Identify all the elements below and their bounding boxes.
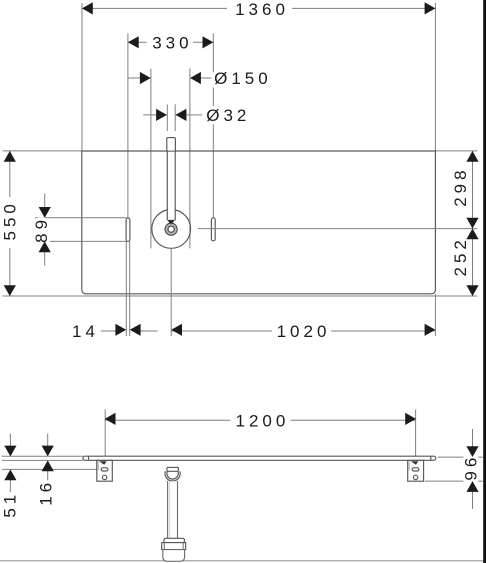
wire 1360 left extension <box>81 3 83 151</box>
arrow 96 top <box>466 446 478 457</box>
svg-text:252: 252 <box>451 236 470 276</box>
siphon pipe <box>168 481 178 538</box>
right bracket <box>408 460 424 481</box>
arrow 89 top <box>39 207 51 218</box>
wire circle centre extension below <box>170 248 172 336</box>
siphon flange <box>164 538 185 542</box>
arrow D32 left <box>156 109 167 121</box>
wire D150 extension left <box>150 69 152 249</box>
siphon collar <box>162 543 186 550</box>
arrow D150 right <box>190 72 201 84</box>
svg-text:Ø32: Ø32 <box>206 106 250 125</box>
svg-text:1200: 1200 <box>235 411 289 430</box>
arrow D150 left <box>140 72 151 84</box>
arrow 298 bottom <box>466 218 478 229</box>
wire 89 extension bottom <box>35 240 126 242</box>
arrow 330 right <box>203 36 214 48</box>
slab (front view) <box>83 456 436 460</box>
dimension D150 leader left <box>128 77 151 79</box>
dimension 330 line <box>128 41 213 43</box>
arrow 298 top <box>466 151 478 162</box>
arrow 550 top <box>4 151 16 162</box>
svg-text:14: 14 <box>72 322 99 341</box>
wire top extension line 550/298 <box>3 150 478 152</box>
arrow 550 bottom <box>4 285 16 296</box>
wire D32 extension left <box>166 104 168 131</box>
svg-text:89: 89 <box>32 216 51 243</box>
dimension 16 tails <box>47 434 49 482</box>
dimension 1020 line <box>171 330 435 332</box>
wire front right extension bracket bottom <box>425 480 483 482</box>
arrow 330 left <box>128 36 139 48</box>
tap channel line right <box>174 151 176 220</box>
wire 330 right extension <box>212 34 214 218</box>
arrow 1200 left <box>105 413 116 425</box>
arrow D32 right <box>176 109 187 121</box>
tap channel line left <box>166 151 168 220</box>
right slot capsule <box>211 218 215 241</box>
wire front right extension slab top <box>438 456 483 458</box>
svg-text:96: 96 <box>461 454 480 481</box>
arrow 1360 left <box>82 2 93 14</box>
arrow 1020 left <box>171 324 182 336</box>
arrow 51 bottom <box>4 470 16 481</box>
dimension 550 line <box>9 151 11 296</box>
drain ring <box>165 223 177 235</box>
arrow 1360 right <box>425 2 436 14</box>
svg-text:16: 16 <box>37 479 56 506</box>
wire 1200 extension left <box>104 410 106 457</box>
svg-text:330: 330 <box>152 34 192 53</box>
svg-text:1020: 1020 <box>277 322 331 341</box>
dimension 14 tails <box>101 330 158 332</box>
arrow 14 right <box>130 324 141 336</box>
dimension 96 tails <box>472 429 474 509</box>
arrow 16 bottom <box>42 460 54 471</box>
arrow 252 top <box>466 229 478 240</box>
wire plate right edge extension below <box>434 294 436 336</box>
wire D150 extension right <box>189 69 191 249</box>
svg-text:550: 550 <box>0 200 19 240</box>
wire front left extension slab bottom <box>2 459 83 461</box>
svg-text:51: 51 <box>0 491 19 518</box>
siphon cup <box>163 550 185 562</box>
wire D32 extension right <box>174 104 176 131</box>
wire 89 extension top <box>35 217 126 219</box>
circle D150 <box>152 210 191 249</box>
page black border right <box>483 0 486 563</box>
wire front left extension slab top <box>2 455 83 457</box>
dimension D32 leader right <box>176 114 202 116</box>
dimension 298/252 line <box>472 151 474 296</box>
tap channel white interior <box>168 152 175 220</box>
wire front left extension hole <box>2 468 101 470</box>
arrow 16 top <box>42 446 54 457</box>
svg-text:1360: 1360 <box>235 0 289 19</box>
plate outline (top view) <box>82 151 436 294</box>
dimension 89 tails <box>44 194 46 266</box>
wire centreline to right <box>198 228 477 230</box>
arrow 252 bottom <box>466 285 478 296</box>
arrow 14 left <box>115 324 126 336</box>
tap hole cap box <box>167 138 176 152</box>
wire bottom extension line 550/252 <box>3 295 478 297</box>
wire slot edge extension right <box>129 241 131 336</box>
wire 330 left extension <box>127 34 129 219</box>
siphon D-ring <box>165 466 180 481</box>
dimension 51 tails <box>9 434 11 493</box>
svg-text:Ø150: Ø150 <box>214 69 272 88</box>
left bracket <box>97 460 113 481</box>
arrow 51 top <box>4 446 16 457</box>
dimension D150 leader right <box>190 77 212 79</box>
drain lever trapezoid <box>168 220 175 224</box>
wire slot edge extension left <box>125 241 127 336</box>
bottom page line <box>0 560 483 562</box>
arrow 96 bottom <box>466 481 478 492</box>
arrow 89 bottom <box>39 241 51 252</box>
slab right joint <box>430 456 432 460</box>
wire 1360 right extension <box>434 3 436 151</box>
left slot capsule <box>126 218 130 241</box>
svg-text:298: 298 <box>451 166 470 206</box>
arrow 1020 right <box>425 324 436 336</box>
slab left joint <box>88 456 90 460</box>
arrow 1200 right <box>405 413 416 425</box>
dimension 1200 line <box>105 419 416 421</box>
siphon nut <box>167 467 179 471</box>
wire 1200 extension right <box>415 410 417 463</box>
dimension D32 leader left <box>143 114 167 116</box>
dimension 1360 line <box>82 7 435 9</box>
